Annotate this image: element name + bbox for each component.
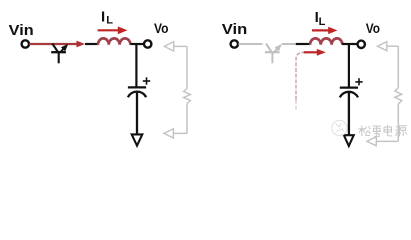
char 松 — [359, 126, 366, 137]
wire inductor to Vo (left) — [130, 43, 143, 45]
svg-text:Vin: Vin — [222, 21, 248, 38]
watermark text (song ge dian yuan, drawn strokes) — [359, 125, 408, 137]
inductor current arrow IL (left) — [98, 29, 119, 31]
load loop bottom arrow (left, gray) — [164, 129, 173, 138]
svg-text:I: I — [101, 8, 105, 25]
capacitor C1 (left, polarized) — [128, 87, 146, 97]
wire junction to capacitor (left) — [135, 44, 137, 87]
load loop bottom wire (left, gray) — [173, 132, 187, 134]
ground (left, open arrow) — [132, 134, 143, 145]
char 哥 — [373, 126, 382, 137]
inductor current arrow IL (right) — [312, 29, 329, 31]
wire Vin to transistor (gray, right) — [239, 43, 263, 45]
freewheel current path (dashed pink, right) — [296, 52, 303, 100]
wire junction to capacitor (right) — [348, 44, 350, 87]
freewheel current arrow (red, right) — [304, 51, 318, 53]
svg-text:L: L — [319, 16, 326, 28]
ground (right, open arrow) — [344, 135, 354, 146]
load loop top arrow (left, gray) — [164, 42, 173, 51]
wire inductor to Vo (right) — [342, 43, 357, 45]
load resistor R-load (right, gray) — [395, 88, 402, 104]
svg-text:Vo: Vo — [154, 21, 169, 36]
svg-text:L: L — [106, 14, 113, 26]
svg-text:Vin: Vin — [9, 22, 34, 39]
load loop right wire upper (left, gray) — [186, 46, 188, 88]
load loop right wire lower (right, gray) — [397, 104, 399, 142]
current arrow on input wire (left) — [76, 41, 85, 48]
terminal Vo (right) — [358, 41, 365, 48]
wire arrow to inductor (black, left) — [85, 43, 98, 45]
terminal Vin (right) — [231, 40, 238, 47]
wire transistor to node (gray, right) — [282, 43, 296, 45]
inductor L2 (right) — [310, 38, 342, 44]
wire capacitor to ground (right) — [348, 93, 350, 135]
wire to inductor (black, right) — [296, 43, 310, 45]
inductor L1 (left) — [98, 38, 130, 44]
transistor Q1 (pass transistor, left) — [51, 44, 66, 64]
load loop right wire upper (right, gray) — [397, 46, 399, 88]
load resistor R-load (left, gray) — [184, 89, 191, 104]
load loop top arrow (right, gray) — [377, 42, 386, 51]
load loop bottom arrow (right, gray) — [367, 137, 376, 146]
wire Vin to transistor (red, left) — [29, 43, 77, 45]
capacitor C1 plus sign — [143, 77, 150, 84]
terminal Vin (left) — [22, 40, 29, 47]
char 电 — [384, 125, 392, 136]
transistor Q1 emitter arrow — [61, 42, 70, 51]
transistor Q2 emitter arrow (gray) — [275, 42, 284, 51]
capacitor C2 (right, polarized) — [340, 88, 358, 98]
wire capacitor to ground (left) — [136, 93, 138, 134]
terminal Vo (left) — [144, 40, 151, 47]
load loop right wire lower (left, gray) — [186, 104, 188, 134]
load loop bottom wire (right, gray) — [376, 140, 398, 142]
char 源 — [396, 126, 398, 136]
svg-text:Vo: Vo — [366, 21, 380, 36]
transistor Q2 (switch, off, gray) — [265, 44, 280, 64]
load loop top wire (right, gray) — [387, 45, 399, 47]
capacitor C2 plus sign — [355, 78, 362, 85]
watermark logo — [332, 120, 347, 135]
load loop top wire (left, gray) — [174, 45, 187, 47]
